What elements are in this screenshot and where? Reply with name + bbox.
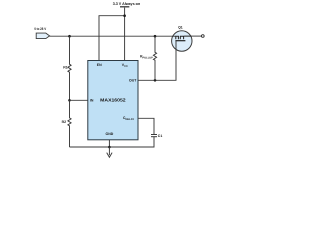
junction gate line / pullup top bbox=[154, 35, 157, 38]
svg-text:IN: IN bbox=[90, 99, 94, 103]
svg-text:C1: C1 bbox=[158, 134, 163, 138]
ground bus wire bbox=[70, 137, 155, 147]
resistor R2 bbox=[62, 100, 71, 147]
svg-text:MAX16052: MAX16052 bbox=[100, 98, 126, 103]
svg-text:EN: EN bbox=[97, 63, 102, 67]
gate lead inside bbox=[175, 41, 177, 50]
ground symbol bbox=[107, 147, 112, 157]
transistor Q1 bbox=[172, 26, 192, 51]
svg-text:Q1: Q1 bbox=[178, 26, 183, 30]
source lead bbox=[172, 35, 175, 37]
wire 3.3V rail down to VCC pin bbox=[124, 8, 126, 61]
op IC U1 MAX16052 body bbox=[88, 61, 138, 140]
capacitor C1 bbox=[151, 134, 162, 138]
channel contact stubs bbox=[176, 36, 184, 39]
junction 3.3V/EN bbox=[123, 14, 126, 17]
wire drain to output terminal bbox=[191, 35, 201, 37]
svg-text:R1: R1 bbox=[63, 66, 68, 70]
resistor R1 bbox=[63, 36, 71, 100]
svg-text:3.3 V Always-on: 3.3 V Always-on bbox=[113, 2, 141, 6]
output terminal bbox=[201, 35, 204, 38]
wire 3.3V branch to EN bbox=[99, 16, 125, 61]
svg-text:R2: R2 bbox=[62, 120, 67, 124]
power symbol 3.3V Always-on bbox=[113, 2, 141, 7]
svg-text:GND: GND bbox=[106, 132, 114, 136]
gate bar bbox=[175, 40, 185, 42]
junction divider/IN bbox=[68, 99, 71, 102]
junction OUT/pullup bbox=[154, 79, 157, 82]
wire GND pin to bus bbox=[108, 140, 110, 147]
junction gnd bbox=[108, 146, 111, 149]
top bars bbox=[175, 35, 191, 37]
wire divider tap to IN pin bbox=[70, 99, 88, 101]
wire input line 0-28V to Q1 source bbox=[49, 35, 172, 37]
svg-text:OUT: OUT bbox=[129, 79, 137, 83]
wire CDELAY to C1 bbox=[138, 118, 154, 134]
input tag 0 to 28 V bbox=[34, 27, 49, 38]
resistor RPULLUP bbox=[140, 36, 157, 80]
wire OUT to gate node bbox=[138, 50, 176, 81]
svg-text:0 to 28 V: 0 to 28 V bbox=[34, 27, 47, 31]
junction input/divider bbox=[68, 35, 71, 38]
